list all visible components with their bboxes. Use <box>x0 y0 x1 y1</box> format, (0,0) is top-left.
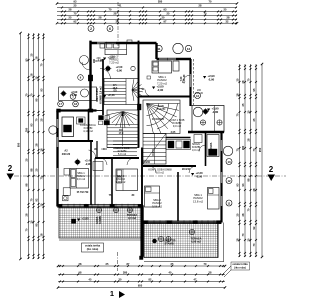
stair A pier <box>137 104 141 110</box>
level mark top-left small <box>103 58 106 61</box>
interior wall right corridor <box>143 165 196 167</box>
survey point top hall <box>106 66 111 71</box>
svg-text:9×17,5: 9×17,5 <box>152 148 155 156</box>
windows left wall <box>56 119 58 128</box>
svg-text:9,0 m2: 9,0 m2 <box>128 217 136 220</box>
bathroom right washbasin <box>209 149 218 156</box>
bed top-right room <box>152 61 172 73</box>
outer wall left-top vertical <box>89 41 91 111</box>
level mark +2.90 right outside <box>203 76 206 79</box>
svg-text:17×18,6/25: 17×18,6/25 <box>152 118 165 121</box>
svg-text:6: 6 <box>109 27 111 31</box>
svg-text:280: 280 <box>241 145 245 150</box>
marker left wall mid <box>70 94 76 100</box>
entrance porch thin outline <box>59 87 97 101</box>
windows right wall <box>220 140 222 151</box>
wc left <box>77 117 86 124</box>
svg-text:280: 280 <box>158 0 163 4</box>
svg-text:380: 380 <box>123 271 128 275</box>
svg-text:7,20 m2: 7,20 m2 <box>109 61 119 65</box>
door arc right bedroom <box>189 166 196 173</box>
marker circle near top hall <box>131 66 135 70</box>
window top-right room <box>159 58 176 60</box>
outer wall right upper vertical <box>189 59 191 106</box>
svg-text:IZBA KUPA: IZBA KUPA <box>95 88 99 102</box>
interior wall kitchen stub <box>94 158 96 205</box>
outer wall top-left block <box>90 42 157 44</box>
svg-text:9,0 m2: 9,0 m2 <box>77 177 86 181</box>
axis circles top <box>88 26 94 32</box>
tree circle left <box>49 126 57 134</box>
tree circle above porch <box>80 56 89 65</box>
stair flight A upper winder <box>104 79 143 105</box>
door arc bath <box>89 150 96 157</box>
right terrace hatched floor <box>144 223 218 258</box>
svg-text:7,20 m2: 7,20 m2 <box>157 81 168 85</box>
svg-text:13: 13 <box>227 160 231 164</box>
svg-text:4,10 m2: 4,10 m2 <box>83 129 93 133</box>
balcony upper right outline <box>192 106 224 133</box>
outer wall right vertical <box>220 132 222 223</box>
svg-text:KUPA: KUPA <box>210 142 213 149</box>
level mark +2.80 left terrace <box>77 219 80 222</box>
svg-text:+2,90: +2,90 <box>71 90 78 94</box>
svg-text:-2,90: -2,90 <box>157 88 164 92</box>
svg-text:KOMBI: KOMBI <box>99 216 102 224</box>
closet left room <box>63 188 70 196</box>
svg-text:KOMBI 1,8 m2: KOMBI 1,8 m2 <box>99 86 103 104</box>
interior wall right bedroom divider <box>177 172 179 221</box>
door arc right bath <box>199 145 206 152</box>
interior wall right waist <box>139 96 191 98</box>
kitchen row right block <box>166 140 191 150</box>
wall pier on x90 <box>88 75 92 81</box>
column marker 11 <box>156 45 162 51</box>
svg-text:80×200: 80×200 <box>142 161 151 164</box>
misc fixture marks <box>147 76 150 79</box>
svg-text:-1,80: -1,80 <box>212 110 219 114</box>
bottom dimension chain <box>57 262 226 289</box>
interior wall stairwell left <box>102 59 104 115</box>
outer wall left vertical <box>56 111 58 207</box>
bed right-bottom room <box>208 188 220 210</box>
wardrobe top-right <box>173 61 179 71</box>
svg-text:17,9: 17,9 <box>119 132 124 135</box>
svg-text:17: 17 <box>59 102 62 106</box>
interior wall central spine lower <box>141 148 143 222</box>
interior wall small landing <box>90 110 103 112</box>
svg-text:2,05: 2,05 <box>171 131 176 134</box>
svg-text:955: 955 <box>138 284 143 288</box>
interior wall bath bottom <box>58 140 94 142</box>
right terrace edge strip <box>217 223 219 258</box>
circled crosses terrace top <box>96 207 101 212</box>
door arc bedroom mid <box>127 158 134 165</box>
window glyph marks bottom band left <box>62 204 134 208</box>
door arc balcony <box>183 75 191 83</box>
interior wall left bath top <box>57 109 97 111</box>
interior wall bedroom divider left <box>111 158 113 205</box>
svg-text:1,10: 1,10 <box>98 59 103 62</box>
filled drain circle right terrace <box>152 239 156 243</box>
svg-text:×210: ×210 <box>101 148 107 151</box>
tree circle top <box>173 43 183 53</box>
svg-text:230×20: 230×20 <box>62 153 71 156</box>
balcony dashed facade line <box>193 59 195 105</box>
svg-text:ostala tvrtka: ostala tvrtka <box>85 244 101 248</box>
marker pair left bath <box>58 101 64 107</box>
stool left room <box>63 196 68 201</box>
bottom wall right block window band <box>143 220 222 222</box>
svg-text:ostala tvrtka: ostala tvrtka <box>232 262 248 266</box>
top dimension chain <box>56 0 238 24</box>
note right bottom with leader <box>222 262 250 277</box>
level mark +1.90 balcony <box>207 109 210 112</box>
interior wall bath right vertical <box>88 111 90 142</box>
bathroom right block tub <box>207 135 219 157</box>
door arc bedroom left <box>100 158 107 165</box>
interior wall stairwell center vertical <box>138 41 140 148</box>
interior wall corridor bottom <box>95 157 139 159</box>
svg-text:950: 950 <box>258 147 262 152</box>
tree circle right balcony <box>193 107 203 117</box>
svg-text:2: 2 <box>90 27 92 31</box>
door arc entry left <box>82 62 90 70</box>
level mark square left terrace <box>72 219 76 223</box>
survey point balcony <box>203 109 208 114</box>
window top-left room <box>97 42 116 44</box>
circled crosses right terrace <box>158 236 163 241</box>
svg-text:-2,90: -2,90 <box>85 162 92 166</box>
door arc right hall <box>149 166 156 173</box>
svg-text:950: 950 <box>17 142 21 147</box>
svg-text:-2,90: -2,90 <box>196 174 203 178</box>
door arc top-right room <box>145 90 152 97</box>
svg-text:2: 2 <box>8 164 13 173</box>
svg-text:+2,00: +2,00 <box>116 65 123 69</box>
svg-text:-2,90: -2,90 <box>116 68 123 72</box>
note box below left terrace <box>82 243 104 252</box>
bathroom tub left <box>62 117 74 137</box>
svg-text:05 702 709: 05 702 709 <box>77 192 89 194</box>
svg-text:2: 2 <box>269 165 274 174</box>
axis 1 marker bottom <box>117 252 119 271</box>
window glyph marks bottom band right <box>148 220 214 224</box>
column marker 12 <box>185 45 191 51</box>
balcony rail line <box>214 106 216 133</box>
right terrace outer border <box>223 223 225 263</box>
stair flight D lower right treads <box>143 134 166 165</box>
porch tree circle <box>81 89 89 97</box>
outer wall top step <box>155 43 157 59</box>
nightstand left room <box>64 169 70 176</box>
interior wall corridor jamb <box>96 141 98 158</box>
balcony slab bottom thick wall <box>188 131 224 134</box>
porch survey point <box>61 91 66 96</box>
svg-text:9,0 m2: 9,0 m2 <box>156 171 164 175</box>
svg-text:9,96 m2: 9,96 m2 <box>152 204 163 208</box>
interior wall left mid vertical <box>90 141 92 205</box>
stair flight B lower fan <box>107 110 139 148</box>
bed left-mid room <box>70 169 89 189</box>
svg-text:-2,90: -2,90 <box>208 77 215 81</box>
survey point left hall <box>75 160 80 165</box>
balcony door window glyph <box>189 74 191 87</box>
interior wall right bath divider <box>205 132 207 166</box>
svg-text:280: 280 <box>25 127 29 132</box>
svg-text:6,98 m2: 6,98 m2 <box>191 240 201 244</box>
svg-text:+2,40: +2,40 <box>85 159 92 163</box>
svg-text:2,00+20: 2,00+20 <box>183 74 186 83</box>
wall between terraces <box>141 206 144 257</box>
section axis 2 line <box>14 175 286 177</box>
washer right block <box>194 135 202 143</box>
svg-text:12: 12 <box>227 179 231 183</box>
bed top-left room <box>100 43 127 55</box>
marker circle left of wall <box>78 75 84 81</box>
corridor closet room B <box>93 162 103 171</box>
left terrace hatched floor <box>59 208 142 239</box>
right terrace corner post <box>140 256 144 260</box>
level mark +2.30 right hall <box>191 173 194 176</box>
level mark +2.00 top-right room <box>152 87 155 90</box>
svg-text:+2,40: +2,40 <box>107 93 115 97</box>
svg-text:11: 11 <box>228 201 231 205</box>
svg-text:9,0 m2: 9,0 m2 <box>173 124 182 128</box>
tree circle right wall <box>223 146 233 156</box>
svg-text:9,96 m2: 9,96 m2 <box>116 180 126 184</box>
column markers right side <box>226 159 232 165</box>
stair flight E small treads <box>113 141 137 155</box>
svg-text:(iko roba): (iko roba) <box>87 248 99 251</box>
svg-text:+2,80: +2,80 <box>81 217 89 221</box>
right dimension chain <box>236 63 264 258</box>
svg-text:11: 11 <box>157 47 161 51</box>
svg-text:1: 1 <box>110 289 114 298</box>
svg-text:KOMBI: KOMBI <box>157 107 166 111</box>
svg-text:(iko roba): (iko roba) <box>234 267 246 270</box>
svg-text:18: 18 <box>74 102 77 106</box>
bed right-mid room <box>145 186 160 207</box>
svg-text:3,0 m2: 3,0 m2 <box>192 148 200 152</box>
bottom wall left block window band <box>58 204 144 206</box>
level mark +2.40 hall <box>103 95 106 98</box>
svg-text:13,8 m2: 13,8 m2 <box>193 199 204 203</box>
bathroom washbasin dark <box>64 125 72 132</box>
left terrace bottom rail <box>59 239 142 241</box>
svg-text:12: 12 <box>187 47 191 51</box>
column marker right upper <box>195 93 201 99</box>
bed center-bottom room <box>116 169 138 191</box>
axis 1 vertical line top <box>117 2 119 58</box>
svg-text:5,0 m2: 5,0 m2 <box>118 152 127 156</box>
door arc top-left room <box>100 69 111 80</box>
circled crosses balcony <box>200 120 205 125</box>
outer wall top-right block <box>157 58 192 60</box>
svg-text:STAMB: STAMB <box>164 242 173 246</box>
closet top-left <box>127 40 132 43</box>
izba wc fixtures dark <box>99 116 104 120</box>
svg-text:90×210: 90×210 <box>182 168 191 171</box>
left dimension chain <box>17 32 45 260</box>
svg-text:230×20: 230×20 <box>195 92 204 95</box>
interior wall right corridor stub <box>166 137 191 139</box>
stair flight C right fan <box>143 100 180 134</box>
